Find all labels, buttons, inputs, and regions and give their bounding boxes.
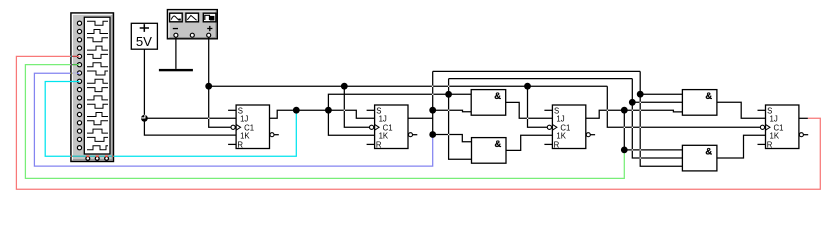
function generator triangle button (186, 13, 199, 22)
svg-text:1K: 1K (770, 132, 780, 141)
JK flip-flop U1 (228, 105, 279, 150)
function generator square button (203, 13, 216, 22)
junction node Q1 branch (325, 107, 332, 114)
logic analyzer bottom terminals (86, 157, 109, 161)
wire clock drop to U1 C1 (209, 86, 231, 127)
junction node clock U2 (341, 83, 348, 90)
wire clock drop to U3 C1 (528, 86, 548, 127)
wire Q1 top bus to right cluster (449, 78, 633, 80)
junction node Q2 gate C (637, 91, 644, 98)
svg-text:R: R (554, 141, 560, 150)
junction node Q2 gate A tap (429, 107, 436, 114)
svg-text:&: & (705, 90, 712, 101)
wire clock drop to U4 C1 (607, 86, 760, 127)
wire Q1 right vertical x632 (632, 79, 682, 158)
wire channel 1 red feedback U4 Q to analyzer (16, 56, 820, 189)
JK flip-flop U2 (367, 105, 418, 150)
AND gate D (682, 145, 717, 171)
wire Q2 top bus (433, 70, 641, 72)
wire gate D out to U4 1K (717, 135, 766, 158)
junction node Q3 bus (621, 107, 628, 114)
JK flip-flop U3 (544, 105, 595, 150)
svg-text:1J: 1J (556, 115, 564, 124)
wire Q1 up branch to gate A in1 (328, 94, 471, 110)
JK flip-flop U4 (758, 105, 809, 150)
svg-text:&: & (705, 146, 712, 157)
junction node Q1 gate C (629, 99, 636, 106)
wire Q1 vertical x448.6 to gate B in2 (449, 79, 472, 160)
wire channel 4 cyan U1 Q to analyzer (45, 82, 296, 157)
logic analyzer screen (84, 17, 110, 154)
wire gate C out to U4 1J (717, 102, 766, 118)
wire Q2 right vertical x640 to gate D in3 (640, 71, 682, 166)
function generator terminals (174, 33, 211, 37)
wire U4 Q stub (799, 117, 808, 119)
wire U3 Q to Q3 bus (586, 110, 683, 118)
logic analyzer channel terminals (16) (77, 21, 81, 150)
wire U2 Q to Q2 vertical (408, 117, 432, 119)
junction node Q3 gate D (621, 147, 628, 154)
svg-text:1K: 1K (379, 132, 389, 141)
white XOR dots at wire crossings (208, 86, 641, 159)
wire Q2 vertical x432.7 (432, 71, 434, 134)
junction node clock U3 (524, 83, 531, 90)
function generator XFG1 body (167, 10, 217, 39)
wire Q1 to gate C in2 (632, 101, 682, 103)
green wire XOR marks (71, 64, 72, 66)
wire Q1 down branch to U2 1K (328, 110, 374, 135)
wire channel 2 green U3 Q to analyzer (25, 65, 624, 179)
wire Q2 to gate B in1 (433, 135, 472, 142)
wire U1 Q to Q1 bus (270, 110, 375, 118)
wire gate B out to U3 1K (506, 135, 552, 150)
wire Q3 vertical to gate D in1 (624, 110, 682, 150)
function generator plus label (207, 26, 212, 31)
wire clock drop to U2 C1 (344, 86, 369, 127)
junction node Q2 gate B tap (429, 131, 436, 138)
svg-text:R: R (237, 141, 243, 150)
wire clock bus (209, 85, 608, 87)
junction node Q1 gate A (445, 91, 452, 98)
svg-text:R: R (767, 141, 773, 150)
logic analyzer U5 body (71, 13, 114, 162)
svg-text:1K: 1K (556, 132, 566, 141)
function generator minus label (173, 28, 178, 29)
logic analyzer screen waveforms (87, 21, 108, 150)
wire battery branch to U1 1K (144, 118, 236, 135)
svg-text:&: & (495, 138, 502, 149)
wire Q2 to gate C in1 (640, 93, 682, 95)
function generator sine button (170, 13, 183, 22)
svg-text:&: & (494, 90, 501, 101)
svg-text:R: R (376, 141, 382, 150)
junction node clock at FG (205, 83, 212, 90)
wire FG plus down to clock node (208, 37, 210, 86)
wire Q2 to gate A in2 (433, 110, 472, 112)
ground (159, 69, 193, 71)
battery V1 5V (131, 23, 157, 49)
svg-text:1J: 1J (379, 115, 387, 124)
cyan over black XOR red marks (71, 155, 114, 157)
AND gate C (682, 90, 717, 116)
svg-text:5V: 5V (136, 34, 152, 49)
wire gate A out to U3 1J (506, 102, 553, 118)
cyan over gray XOR tint (72, 155, 112, 157)
svg-text:1K: 1K (240, 132, 250, 141)
junction node battery/1J (141, 115, 148, 122)
junction node Q1 cyan tap (293, 107, 300, 114)
svg-text:1J: 1J (770, 115, 778, 124)
svg-text:1J: 1J (240, 115, 248, 124)
AND gate A (471, 90, 506, 116)
blue wire XOR marks (71, 72, 72, 74)
wire FG minus to ground (175, 37, 177, 69)
wire battery to U1 1J (144, 49, 236, 118)
AND gate B (472, 138, 507, 164)
wire channel 3 blue U2 Q to analyzer (34, 73, 432, 166)
red wire XOR marks at analyzer edge (71, 55, 72, 57)
